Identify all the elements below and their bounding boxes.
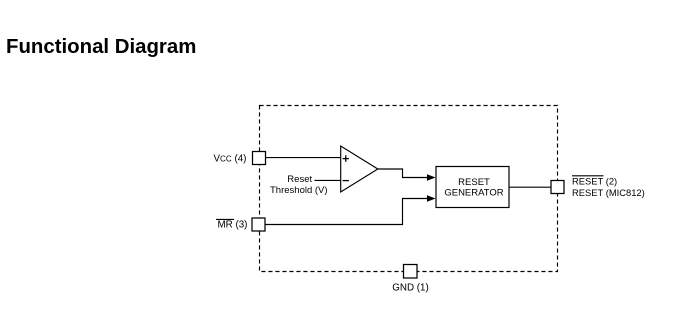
comparator - input symbol bbox=[343, 180, 349, 182]
svg-text:Reset: Reset bbox=[287, 174, 312, 185]
svg-text:MR (3): MR (3) bbox=[218, 220, 248, 231]
wire VCC pin to comparator + input bbox=[266, 157, 341, 159]
pin GND (1) square bbox=[404, 265, 418, 279]
op-amp comparator U1 bbox=[341, 146, 378, 192]
pin RESET (2) square bbox=[551, 181, 564, 194]
svg-text:RESET (MIC812): RESET (MIC812) bbox=[572, 187, 645, 198]
arrowhead MR wire into reset generator bbox=[427, 195, 436, 201]
wire Reset Threshold to comparator - input bbox=[315, 179, 341, 181]
svg-text:Threshold (V): Threshold (V) bbox=[270, 185, 328, 196]
IC boundary dashed box bbox=[260, 106, 558, 272]
svg-text:RESET: RESET bbox=[458, 177, 490, 188]
svg-text:GND (1): GND (1) bbox=[392, 283, 428, 294]
wire MR pin to reset generator bbox=[266, 199, 428, 225]
arrowhead comparator wire into reset generator bbox=[427, 174, 436, 180]
label MR (3) with overline bbox=[216, 219, 247, 230]
svg-text:Functional Diagram: Functional Diagram bbox=[6, 36, 196, 58]
wire comparator output to reset generator bbox=[378, 169, 428, 178]
comparator + input symbol bbox=[343, 155, 349, 162]
RESET GENERATOR block bbox=[436, 167, 509, 208]
pin VCC (4) square bbox=[253, 152, 266, 165]
svg-text:RESET (2): RESET (2) bbox=[572, 176, 617, 187]
pin MR (3) square bbox=[252, 218, 265, 231]
svg-text:VCC (4): VCC (4) bbox=[214, 154, 247, 165]
svg-text:GENERATOR: GENERATOR bbox=[444, 188, 503, 199]
wire reset generator to RESET pin bbox=[509, 186, 551, 188]
label RESET (2) with overline bbox=[572, 176, 617, 187]
